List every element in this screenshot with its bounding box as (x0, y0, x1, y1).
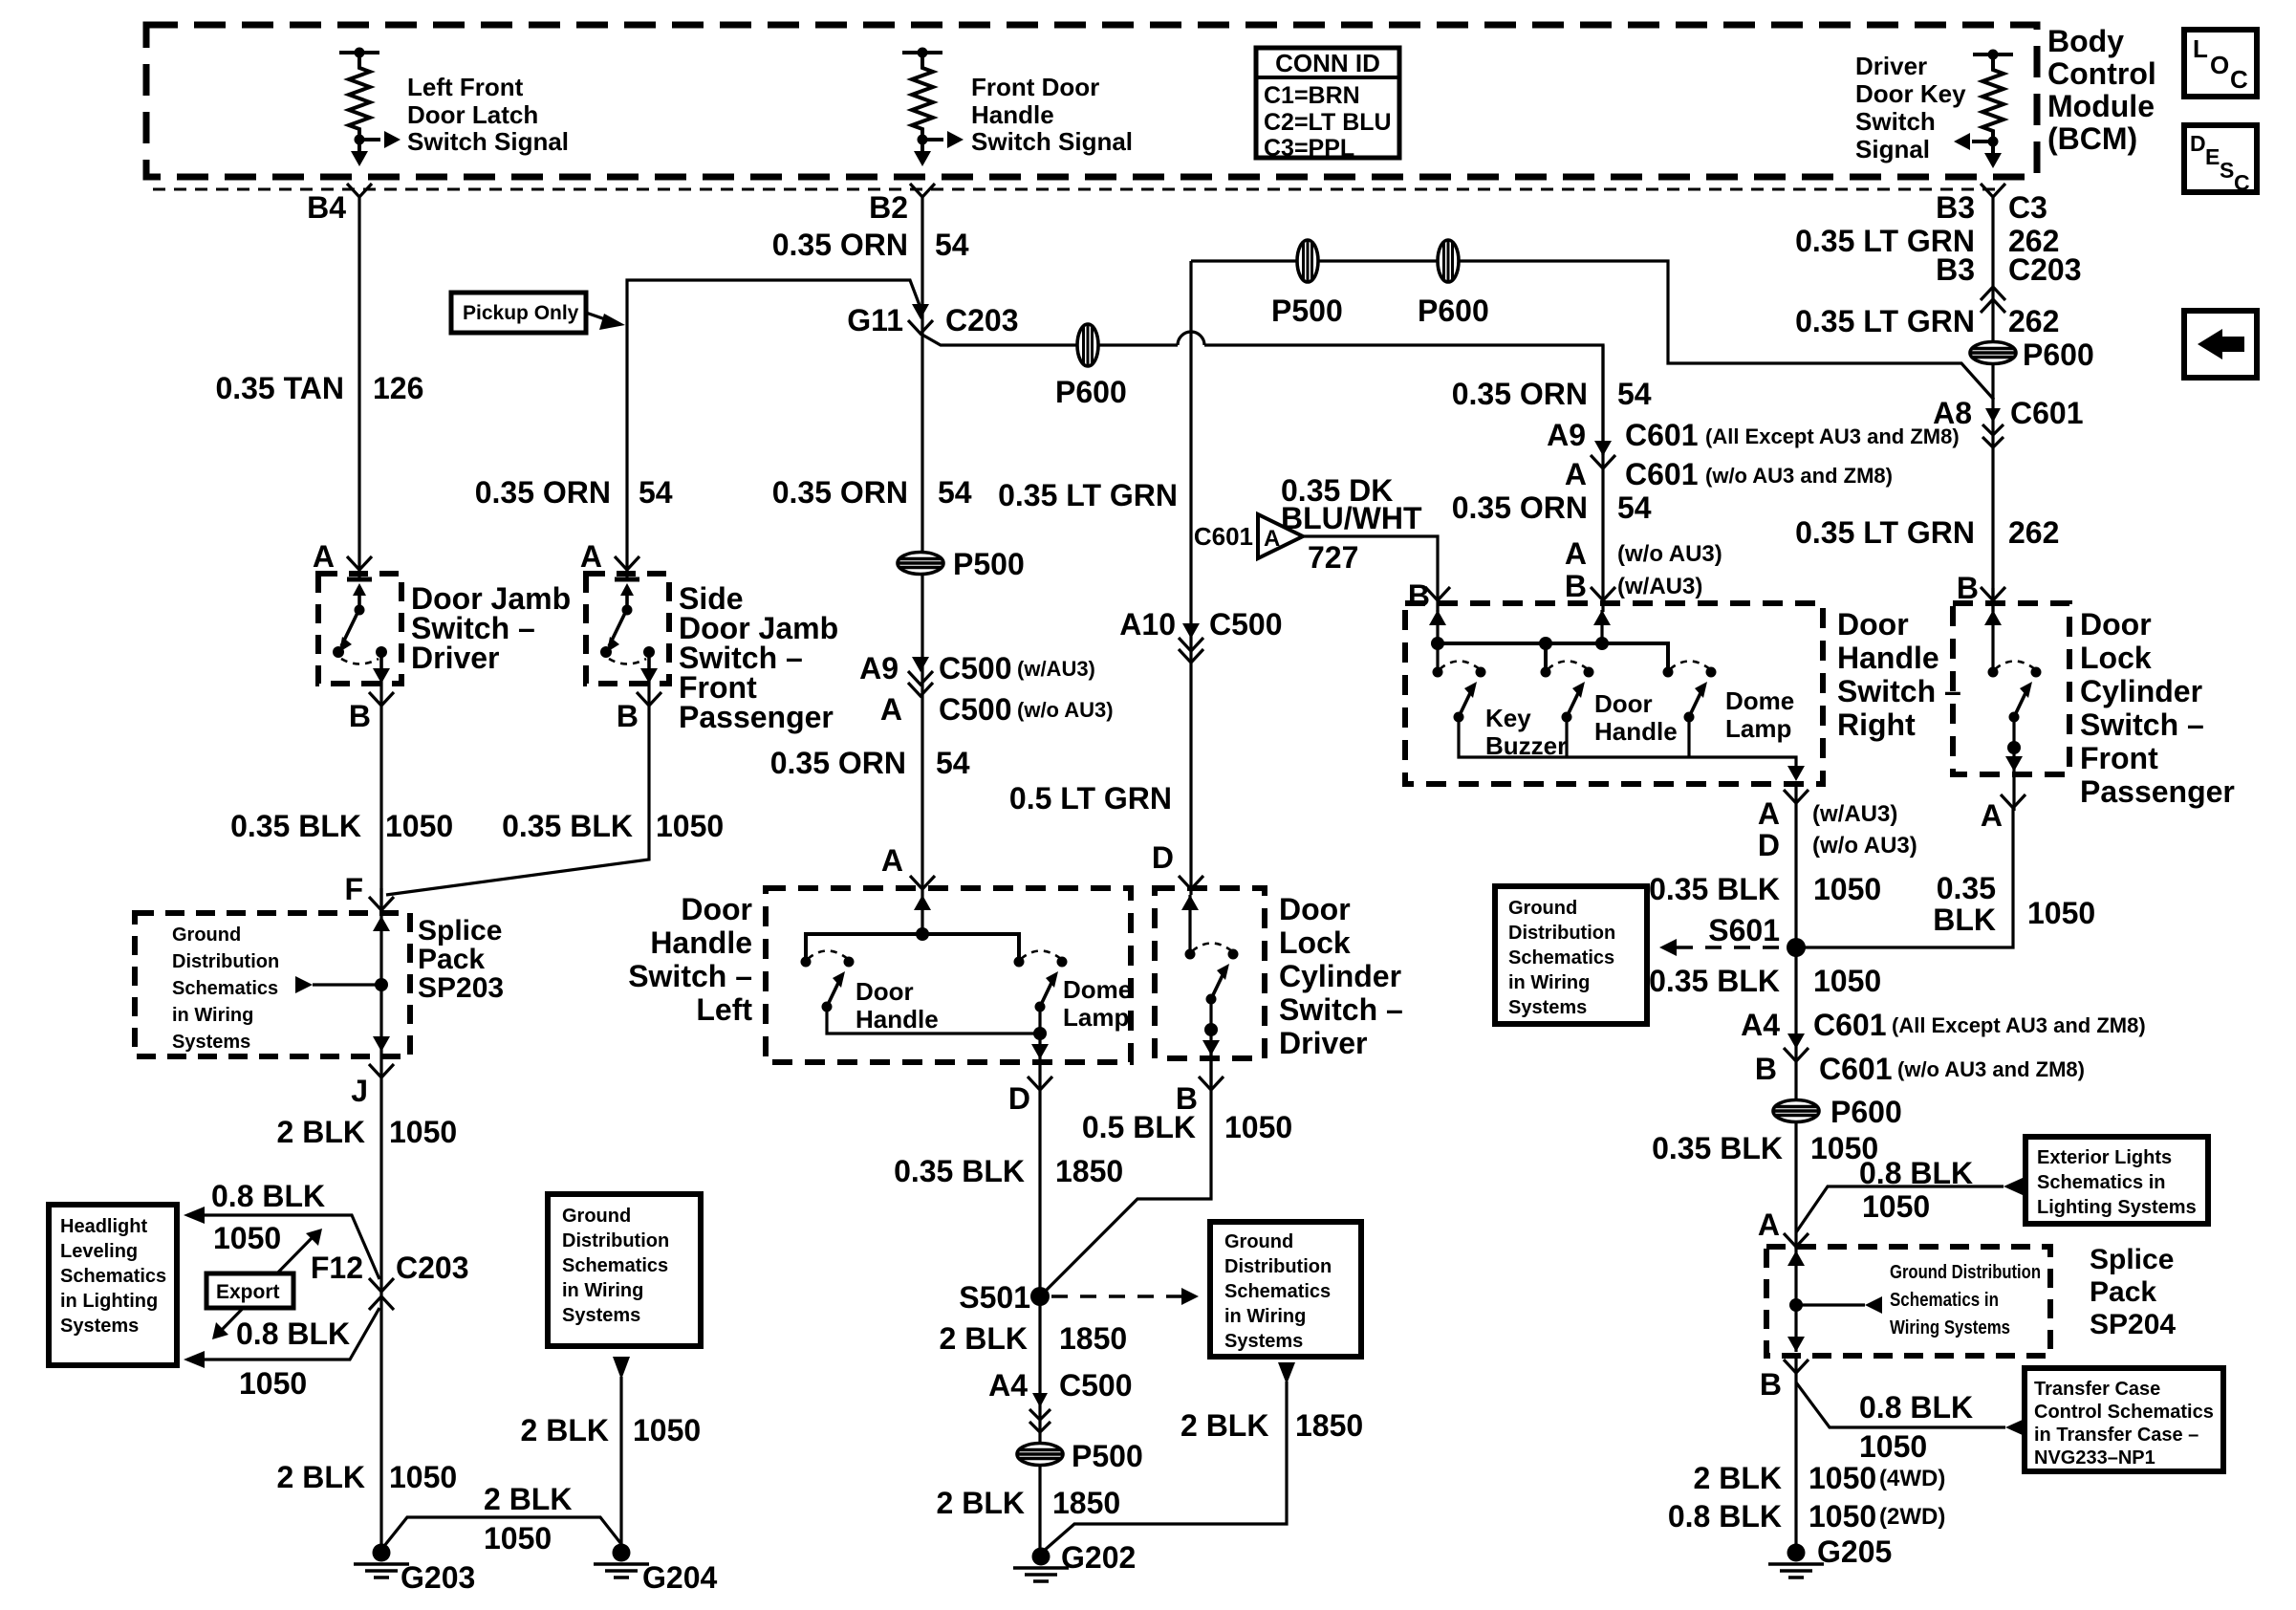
svg-text:Schematics in: Schematics in (2037, 1172, 2166, 1193)
svg-text:C: C (2234, 170, 2250, 195)
svg-text:54: 54 (935, 228, 969, 262)
entry arrows (right box) (1429, 610, 1611, 672)
bottom bus (right box) (1459, 717, 1796, 774)
svg-text:1050: 1050 (1813, 872, 1881, 906)
svg-text:Pickup Only: Pickup Only (463, 302, 579, 324)
svg-text:A: A (1758, 796, 1780, 831)
svg-text:1050: 1050 (1859, 1429, 1927, 1464)
svg-text:A: A (1565, 457, 1587, 491)
label Driver Door Key Switch Signal (1855, 52, 1966, 163)
svg-text:A: A (880, 692, 902, 727)
svg-text:C601: C601 (1813, 1008, 1887, 1042)
svg-text:0.35 BLK: 0.35 BLK (1649, 872, 1780, 906)
svg-text:2 BLK: 2 BLK (940, 1321, 1028, 1356)
svg-text:Ground Distribution: Ground Distribution (1890, 1262, 2041, 1283)
svg-text:1050: 1050 (1862, 1189, 1930, 1224)
pin B (w/AU3) (1565, 569, 1702, 603)
label 2 BLK 1850 (riser) (1180, 1408, 1363, 1443)
svg-text:54: 54 (936, 746, 970, 780)
label 0.35 BLK 1050 (below P600) (1652, 1131, 1878, 1165)
svg-text:Right: Right (1837, 707, 1916, 742)
svg-text:C2=LT BLU: C2=LT BLU (1264, 109, 1392, 136)
svg-text:54: 54 (938, 475, 972, 510)
SP203 exit arrow down (373, 1036, 390, 1052)
label 0.35 ORN 54 (B2 lower) (770, 746, 970, 780)
svg-text:SP204: SP204 (2090, 1309, 2176, 1340)
svg-text:C203: C203 (396, 1251, 469, 1285)
node A/C500 w/o AU3 (880, 692, 1114, 727)
svg-text:Lamp: Lamp (1725, 714, 1791, 743)
svg-text:D: D (1758, 828, 1780, 862)
svg-text:0.5 BLK: 0.5 BLK (1082, 1110, 1196, 1144)
svg-text:1050: 1050 (633, 1413, 701, 1447)
wire upper run with P500 P600 (1191, 261, 1994, 400)
svg-text:B: B (1408, 578, 1430, 613)
svg-text:Switch: Switch (1855, 107, 1936, 136)
svg-text:126: 126 (373, 371, 423, 405)
svg-text:C601: C601 (1625, 457, 1699, 491)
node B3/C3 (1981, 184, 2005, 197)
label 0.8 BLK 1050 (transfer branch) (1859, 1390, 1973, 1464)
svg-text:Distribution: Distribution (1224, 1256, 1332, 1277)
label 2 BLK 1050 (G203) (277, 1460, 458, 1494)
label Splice Pack SP204 (2090, 1244, 2176, 1340)
switch Door Handle (right box) (1541, 662, 1594, 723)
svg-text:Dome: Dome (1725, 686, 1794, 715)
svg-text:54: 54 (1617, 377, 1652, 411)
svg-text:(w/o AU3 and ZM8): (w/o AU3 and ZM8) (1705, 464, 1893, 488)
BCM connector face dashed line (153, 188, 2003, 191)
svg-text:Front: Front (2080, 741, 2158, 775)
connector P500 (upper run) (1297, 240, 1318, 282)
svg-text:0.35 ORN: 0.35 ORN (1452, 377, 1588, 411)
door jamb switch driver dashed box (318, 574, 401, 684)
svg-text:in Wiring: in Wiring (172, 1005, 253, 1026)
svg-text:B3: B3 (1936, 252, 1975, 287)
svg-text:BLU/WHT: BLU/WHT (1281, 501, 1422, 535)
svg-text:Export: Export (216, 1281, 280, 1303)
splice S601 (1787, 938, 1806, 957)
svg-text:2 BLK: 2 BLK (1180, 1408, 1268, 1443)
svg-text:0.35 BLK: 0.35 BLK (1652, 1131, 1783, 1165)
C601 A triangle (0.35 DK BLU/WHT 727) (1194, 514, 1303, 558)
svg-text:(w/o AU3): (w/o AU3) (1812, 833, 1917, 859)
svg-text:Control Schematics: Control Schematics (2034, 1402, 2214, 1423)
svg-text:Exterior Lights: Exterior Lights (2037, 1147, 2172, 1168)
svg-text:Schematics: Schematics (562, 1255, 668, 1276)
svg-text:C500: C500 (939, 651, 1012, 685)
node A9/C500 w/AU3 (859, 651, 1095, 685)
wire through SP203 (379, 913, 382, 1052)
switch Dome Lamp (right box) (1663, 662, 1717, 723)
svg-text:Dome: Dome (1063, 975, 1132, 1004)
wire J down to G203 (379, 1052, 382, 1553)
svg-text:1050: 1050 (1809, 1461, 1876, 1495)
svg-text:L: L (2193, 34, 2208, 63)
node A4/C601 all-except (1741, 1008, 2146, 1042)
svg-text:Door Key: Door Key (1855, 79, 1966, 108)
label 2 BLK 1050 (link) (484, 1482, 572, 1556)
exit arrow pin D (left box) (1031, 1044, 1049, 1059)
svg-text:F: F (344, 872, 363, 906)
svg-text:A: A (1264, 526, 1280, 552)
svg-text:in Wiring: in Wiring (1224, 1306, 1306, 1327)
label Door Jamb Switch Driver (411, 581, 571, 675)
svg-text:727: 727 (1308, 540, 1358, 575)
svg-text:Schematics: Schematics (1224, 1281, 1331, 1302)
splice S501 (1030, 1287, 1050, 1306)
wire D to S501 (1038, 1055, 1041, 1549)
svg-text:1050: 1050 (389, 1460, 457, 1494)
svg-text:1050: 1050 (213, 1221, 281, 1255)
svg-text:Lighting Systems: Lighting Systems (2037, 1197, 2197, 1218)
svg-text:A: A (580, 539, 602, 574)
svg-text:0.35 ORN: 0.35 ORN (1452, 490, 1588, 525)
node A/C601 w/o (1565, 457, 1893, 491)
svg-text:B: B (617, 699, 639, 733)
svg-text:Splice: Splice (2090, 1244, 2174, 1275)
svg-text:C203: C203 (945, 303, 1019, 337)
svg-text:Schematics: Schematics (1508, 947, 1614, 968)
svg-text:54: 54 (639, 475, 673, 510)
wire C203 to A9/C601 horizontal run (921, 334, 1603, 455)
svg-text:Driver: Driver (1279, 1026, 1368, 1060)
svg-text:Ground: Ground (562, 1206, 631, 1227)
svg-text:54: 54 (1617, 490, 1652, 525)
node B/C601 w/o (1755, 1052, 2085, 1086)
door handle switch left dashed box (766, 888, 1131, 1062)
svg-text:Switch –: Switch – (2080, 707, 2204, 742)
connector P600 (right column) (1970, 342, 2016, 364)
switch contacts (FP lock) (1988, 662, 2042, 723)
svg-text:1050: 1050 (1224, 1110, 1292, 1144)
label 0.35 LT GRN 262 (mid) (1795, 304, 2059, 338)
svg-text:Switch –: Switch – (1279, 992, 1403, 1027)
svg-text:Pack: Pack (2090, 1276, 2156, 1308)
node A8/C601 (1933, 396, 2083, 430)
svg-text:1050: 1050 (239, 1366, 307, 1401)
svg-text:1850: 1850 (1295, 1408, 1363, 1443)
pivot drop (driver lock) (1202, 999, 1220, 1090)
wire G204 riser (613, 1357, 630, 1553)
junction dot exit (left box) (1033, 1027, 1047, 1040)
svg-text:Door: Door (1594, 689, 1653, 718)
svg-text:in Wiring: in Wiring (1508, 972, 1590, 993)
side door jamb switch contacts (600, 579, 658, 684)
svg-text:C500: C500 (1209, 607, 1283, 642)
svg-text:0.35 ORN: 0.35 ORN (770, 746, 906, 780)
svg-text:G204: G204 (642, 1560, 717, 1595)
wire B driver lock to S501 (1040, 1052, 1211, 1296)
label 2 BLK 1050 (4WD) (1694, 1461, 1946, 1495)
svg-text:2 BLK: 2 BLK (1694, 1461, 1782, 1495)
svg-text:Systems: Systems (60, 1316, 139, 1337)
wire G203 to G204 link (384, 1517, 621, 1546)
svg-text:B: B (1957, 571, 1979, 605)
svg-text:C3: C3 (2008, 190, 2047, 225)
connector P500 (B2 column) (898, 553, 943, 575)
svg-text:0.5 LT GRN: 0.5 LT GRN (1009, 781, 1172, 816)
label 0.8 BLK 1050 (upper branch) (211, 1179, 325, 1255)
label 0.35 DK BLU/WHT 727 (1281, 473, 1422, 575)
CONN ID table (1256, 48, 1399, 162)
svg-text:0.8 BLK: 0.8 BLK (1859, 1390, 1973, 1425)
bottom bus (left box) (827, 1007, 1040, 1052)
svg-text:2 BLK: 2 BLK (484, 1482, 572, 1516)
svg-text:in Lighting: in Lighting (60, 1291, 158, 1312)
svg-text:in Wiring: in Wiring (562, 1280, 643, 1301)
svg-text:Distribution: Distribution (562, 1230, 669, 1251)
SP204 junction dot (1789, 1298, 1803, 1312)
svg-text:CONN ID: CONN ID (1275, 49, 1380, 77)
svg-text:Door: Door (681, 892, 752, 926)
wire B2 down to Door Handle Switch Left (921, 197, 923, 895)
label 2 BLK 1850 (below S501) (940, 1321, 1128, 1356)
svg-text:C601: C601 (2010, 396, 2084, 430)
svg-text:1050: 1050 (1809, 1499, 1876, 1534)
node B (below SP204) (1784, 1360, 1809, 1373)
svg-text:B: B (1755, 1052, 1777, 1086)
DESC box (2184, 125, 2257, 195)
svg-text:B3: B3 (1936, 190, 1975, 225)
ground G202 (1013, 1548, 1069, 1582)
node A (door lock cyl FP) (2001, 794, 2025, 808)
pin A (w/o AU3) (1565, 536, 1722, 571)
label 0.35 BLK 1050 (S601 right) (1933, 871, 2095, 937)
svg-text:S: S (2220, 158, 2234, 183)
svg-text:Door: Door (2080, 607, 2152, 642)
svg-text:E: E (2205, 144, 2220, 169)
svg-text:1850: 1850 (1055, 1154, 1123, 1188)
entry arrow pin B (FP lock) (1984, 610, 2002, 672)
door lock cylinder switch FP dashed box (1953, 603, 2069, 774)
node B2 (910, 184, 935, 197)
label 0.8 BLK 1050 (lower branch) (236, 1316, 350, 1401)
svg-text:P500: P500 (953, 547, 1025, 581)
label 0.35 ORN 54 (A9 upper) (1452, 377, 1652, 411)
svg-text:1850: 1850 (1059, 1321, 1127, 1356)
svg-text:0.8 BLK: 0.8 BLK (236, 1316, 350, 1351)
svg-text:BLK: BLK (1933, 903, 1996, 937)
svg-text:C3=PPL: C3=PPL (1264, 135, 1354, 162)
SP204 internal arrow up (1787, 1251, 1805, 1266)
label Door Lock Cylinder Switch Driver (1279, 892, 1403, 1060)
svg-text:P600: P600 (1418, 294, 1489, 328)
svg-text:B2: B2 (869, 190, 908, 225)
svg-text:A: A (1565, 536, 1587, 571)
node F12/C203 (311, 1251, 469, 1285)
svg-text:1050: 1050 (2027, 896, 2095, 930)
svg-text:Transfer Case: Transfer Case (2034, 1379, 2160, 1400)
svg-text:B: B (349, 699, 371, 733)
svg-text:(4WD): (4WD) (1879, 1466, 1945, 1491)
svg-text:A9: A9 (859, 651, 899, 685)
svg-text:C500: C500 (1059, 1368, 1133, 1403)
node A10/C500 (1119, 607, 1282, 642)
svg-text:D: D (1152, 840, 1174, 875)
svg-text:0.35 LT GRN: 0.35 LT GRN (998, 478, 1178, 512)
svg-text:C: C (2230, 65, 2248, 94)
svg-text:Lock: Lock (1279, 925, 1351, 960)
wire 0.8 BLK upper branch to headlight box (184, 1207, 379, 1279)
svg-text:(w/o AU3): (w/o AU3) (1017, 698, 1114, 722)
junction dot entry (left box) (916, 927, 929, 941)
svg-text:Ground: Ground (1224, 1231, 1293, 1252)
svg-text:A4: A4 (988, 1368, 1028, 1403)
svg-text:Handle: Handle (650, 925, 752, 960)
wire ground distribution riser to G202 (1044, 1362, 1295, 1551)
label 0.5 BLK 1050 (1082, 1110, 1292, 1144)
svg-text:Lock: Lock (2080, 641, 2152, 675)
wire B passenger to F junction (381, 673, 649, 913)
switch Key Buzzer (1433, 662, 1486, 723)
label 0.35 ORN 54 (passenger branch) (475, 475, 673, 510)
label 0.35 ORN 54 (B2 mid) (772, 475, 972, 510)
svg-text:P600: P600 (2023, 337, 2094, 372)
svg-text:Headlight: Headlight (60, 1216, 147, 1237)
svg-text:Switch Signal: Switch Signal (407, 127, 569, 156)
svg-text:Cylinder: Cylinder (1279, 959, 1401, 993)
svg-text:Systems: Systems (562, 1305, 640, 1326)
BCM module dashed box (146, 25, 2037, 177)
svg-text:(w/o AU3 and ZM8): (w/o AU3 and ZM8) (1897, 1057, 2085, 1081)
svg-text:(All Except AU3 and ZM8): (All Except AU3 and ZM8) (1705, 424, 1960, 448)
label 0.35 LT GRN 262 (lower) (1795, 515, 2059, 550)
wire SP204 to G205 (1794, 1354, 1797, 1547)
wire branch Pickup Only (0.35 ORN to Side Door Jamb Switch) (627, 280, 921, 577)
wire branch to exterior lights (1796, 1178, 2023, 1232)
svg-text:1050: 1050 (656, 809, 724, 843)
splice pack SP203 dashed box (135, 913, 410, 1056)
Pickup Only callout box (451, 293, 625, 333)
svg-text:C601: C601 (1819, 1052, 1893, 1086)
ground G203 (354, 1544, 409, 1578)
svg-text:0.35 LT GRN: 0.35 LT GRN (1795, 515, 1975, 550)
label Body Control Module (BCM) (2047, 24, 2156, 156)
Exterior Lights Schematics box (2025, 1137, 2208, 1224)
svg-text:Ground: Ground (1508, 898, 1577, 919)
hop over A10 wire (1178, 332, 1204, 345)
exit arrow (right box) (1787, 766, 1805, 781)
svg-text:2 BLK: 2 BLK (937, 1486, 1025, 1520)
svg-text:0.35: 0.35 (1937, 871, 1996, 905)
svg-text:Switch –: Switch – (1837, 674, 1961, 708)
svg-text:(2WD): (2WD) (1879, 1504, 1945, 1530)
svg-text:(BCM): (BCM) (2047, 121, 2137, 156)
svg-text:SP203: SP203 (418, 972, 504, 1004)
label Door Handle Switch Right (1837, 607, 1961, 742)
svg-text:262: 262 (2008, 515, 2059, 550)
svg-text:Schematics in: Schematics in (1890, 1290, 1999, 1311)
switch Door Handle (left box) (801, 951, 855, 1012)
entry arrow pin D (driver lock) (1181, 895, 1199, 954)
wire S601 to door lock cyl FP pin A (1796, 808, 2013, 947)
label 0.35 BLK 1050 (above S601) (1649, 872, 1881, 906)
label 2 BLK 1050 (G204) (521, 1413, 702, 1447)
svg-text:G203: G203 (401, 1560, 475, 1595)
label Ground Distribution Schematics in Wiring Systems (SP203) (172, 925, 279, 1053)
svg-text:A4: A4 (1741, 1008, 1780, 1042)
svg-text:1850: 1850 (1052, 1486, 1120, 1520)
svg-text:Door: Door (856, 977, 914, 1006)
switch contacts (driver lock) (1185, 944, 1239, 1005)
svg-text:Distribution: Distribution (172, 951, 279, 972)
label Left Front Door Latch Switch Signal (407, 73, 569, 156)
svg-text:F12: F12 (311, 1251, 363, 1285)
svg-text:Systems: Systems (1224, 1331, 1303, 1352)
LOC box (2184, 30, 2257, 97)
svg-text:Lamp: Lamp (1063, 1003, 1129, 1032)
svg-text:Left Front: Left Front (407, 73, 524, 101)
svg-text:A9: A9 (1547, 418, 1586, 452)
svg-text:C203: C203 (2008, 252, 2082, 287)
svg-text:C500: C500 (939, 692, 1012, 727)
wire through SP204 (1794, 1247, 1797, 1352)
Headlight Leveling Schematics box (49, 1205, 177, 1365)
label 0.35 LT GRN 262 (upper) (1795, 224, 2059, 258)
svg-text:0.35 BLK: 0.35 BLK (1649, 964, 1780, 998)
ground G204 (594, 1544, 649, 1578)
SP203 junction dot (375, 978, 388, 991)
svg-text:Switch –: Switch – (628, 959, 752, 993)
svg-text:(w/AU3): (w/AU3) (1617, 574, 1702, 599)
label Door Lock Cylinder Switch Front Passenger (2080, 607, 2235, 809)
S501 dashed arrow to ground distribution box (1051, 1288, 1199, 1305)
svg-text:P600: P600 (1830, 1095, 1902, 1129)
connector C601 arrow/chevrons (1982, 408, 2004, 447)
svg-text:D: D (2190, 131, 2206, 156)
Ground Distribution box (S501) (1210, 1222, 1361, 1357)
svg-text:Door: Door (1279, 892, 1351, 926)
node A/D below right box (1784, 790, 1809, 803)
label 0.35 BLK 1850 (894, 1154, 1123, 1188)
door lock cylinder switch driver dashed box (1155, 888, 1265, 1058)
svg-text:A: A (881, 843, 903, 878)
svg-text:Body: Body (2047, 24, 2124, 58)
svg-text:Handle: Handle (1837, 641, 1939, 675)
svg-text:Handle: Handle (856, 1005, 939, 1033)
svg-text:O: O (2210, 51, 2229, 79)
SP203 tap arrow (295, 976, 381, 993)
Ground Distribution box (G204) (548, 1194, 701, 1346)
svg-text:1050: 1050 (389, 1115, 457, 1149)
svg-text:0.35 BLK: 0.35 BLK (230, 809, 361, 843)
pivot drop (FP lock) (2005, 717, 2023, 811)
svg-text:Systems: Systems (172, 1032, 250, 1053)
resistor R3 (Driver Door Key Switch Signal) (1954, 50, 2013, 169)
label 0.8 BLK 1050 (exterior branch) (1859, 1156, 1973, 1224)
svg-text:C601: C601 (1625, 418, 1699, 452)
node J (369, 1064, 394, 1077)
svg-text:0.35 BLK: 0.35 BLK (502, 809, 633, 843)
SP204 exit arrow down (1787, 1337, 1805, 1352)
label 0.35 BLK 1050 (passenger) (502, 809, 724, 843)
door handle switch right dashed box (1405, 603, 1823, 784)
svg-text:Door: Door (1837, 607, 1909, 642)
svg-text:Schematics: Schematics (172, 978, 278, 999)
wire A9/C601 column (1601, 345, 1604, 612)
svg-text:Leveling: Leveling (60, 1241, 138, 1262)
svg-text:A: A (1981, 798, 2003, 833)
connector P500 (G202 column) (1017, 1444, 1063, 1466)
splice pack SP204 dashed box (1766, 1247, 2050, 1356)
label 0.35 BLK 1050 (driver) (230, 809, 453, 843)
connector C203 chevrons up (1981, 287, 2005, 313)
svg-text:in Transfer Case –: in Transfer Case – (2034, 1425, 2199, 1446)
svg-text:P600: P600 (1055, 375, 1127, 409)
svg-text:Switch Signal: Switch Signal (971, 127, 1133, 156)
svg-text:P500: P500 (1271, 294, 1343, 328)
